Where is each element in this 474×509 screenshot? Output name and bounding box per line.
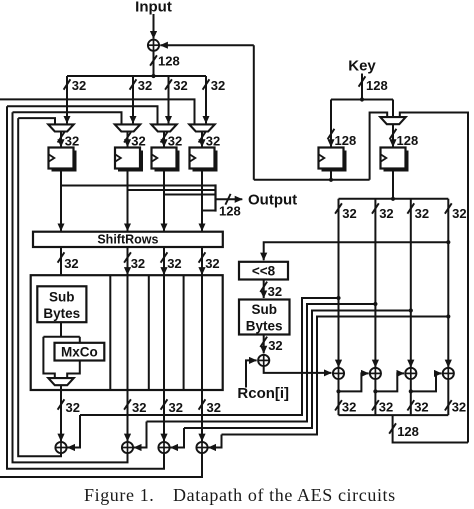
slash 32 below M1 [58,132,65,142]
wire RK1 value recirculate into mux M6 left input [370,113,388,180]
slash 128 above RK1 [328,129,335,139]
wire round key word w0 nest run to X1 jog [80,298,339,415]
svg-text:128: 128 [397,424,419,439]
wire M4 output to register R4 [201,132,203,147]
svg-text:32: 32 [131,133,145,148]
block RotWord shifter <<8 [239,262,288,280]
wire R3 output down to ShiftRows [163,169,165,231]
slash 32 on key column w0 [335,203,342,213]
slash 32 below ShiftRows col 2 [124,252,131,262]
wire Input to XOR [153,14,155,39]
wire X3 output wrap-around feedback [7,106,164,469]
wire new-key bus [339,414,449,416]
slash 32 on drop 4 [203,79,210,89]
wire next-round-key feedback up right edge into mux M6 right input [400,113,468,443]
wire X1 output wrap-around feedback [18,118,61,456]
wire Rcon[i] into XR [246,360,257,387]
wire MxCo output to mux M5 right input [67,361,80,379]
svg-text:32: 32 [64,256,78,271]
svg-text:128: 128 [335,133,357,148]
slash 128 on output wire [225,194,230,205]
node RK2 output junction on key bus [391,197,395,201]
node tap key word w0 [336,296,340,300]
wire XK3 output to new-key bus [410,391,412,415]
node XK3 output junction [409,389,413,393]
slash 32 below ShiftRows col 1 [58,252,65,262]
svg-text:32: 32 [173,78,187,93]
svg-text:Key: Key [348,58,376,75]
slash 32 above new-key bus word 2 [407,400,414,410]
svg-text:32: 32 [379,206,393,221]
wire RK2 output down to key bus [392,169,394,199]
wire round box divider 2 [148,275,150,390]
wire input bus [67,75,206,77]
block ShiftRows [33,232,223,247]
mux M4 (state column 4) [189,124,214,131]
xor gate X3 (AddRoundKey word 3) [158,442,169,453]
slash 32 above new-key bus word 3 [445,400,452,410]
wire XK2 output chained into XK3 [375,373,404,391]
svg-text:MxCo: MxCo [61,345,98,360]
wire round-key into X0 [160,44,254,46]
wire bus drop into mux M3 [168,76,170,123]
wire pass-through column 2 to xor X2 [127,275,129,441]
svg-text:32: 32 [379,400,393,415]
wire feedback 1 top run to mux M1 left input [18,118,55,124]
wire round box divider 3 [183,275,185,390]
svg-text:32: 32 [65,133,79,148]
xor gate XR (Rcon add) [258,355,269,366]
wire XK4 output to new-key bus [447,379,449,415]
node XK2 output junction [373,389,377,393]
wire key split [331,99,393,101]
wire RotWord output into key SubBytes [263,280,265,299]
svg-text:32: 32 [342,400,356,415]
svg-text:Input: Input [135,0,172,15]
wire round key word w1 nest run to X2 jog [147,304,376,422]
svg-text:32: 32 [66,400,80,415]
svg-text:32: 32 [452,400,466,415]
wire R2 output tap to output merge [128,189,216,191]
svg-text:32: 32 [167,256,181,271]
register R2 (state word 2) [115,148,143,172]
svg-text:32: 32 [132,400,146,415]
svg-text:Bytes: Bytes [246,319,283,334]
wire bus drop into mux M1 [66,76,68,123]
wire bus drop into mux M4 [205,76,207,123]
wire XK3 output chained into XK4 [411,373,442,391]
wire bus drop into mux M2 [132,76,134,123]
wire XK1 output to new-key bus [338,391,340,415]
bus-width slash 128 below X0 [150,55,157,65]
wire key split left branch into register RK1 [330,100,332,147]
wire feedback 4 (from X4) to mux M4 left input [0,99,195,124]
node tap w3 for RotWord [446,240,450,244]
node XK1 output junction [336,389,340,393]
slash 32 below key SubBytes [260,337,267,347]
xor gate XK3 (key expansion word 2) [405,368,416,379]
wire round key word 3 into X3 [170,428,184,448]
svg-text:32: 32 [268,284,282,299]
register R4 (state word 4) [190,148,218,172]
mux M6 (key select) [380,117,405,124]
wire M1 output to register R1 [60,132,62,147]
mux M2 (state column 2) [115,124,140,131]
wire key word w1 column down to xor XK2 [374,199,376,367]
slash 32 on drop 1 [64,79,71,89]
slash 32 below M4 [199,132,206,142]
wire key word w2 column down to xor XK3 [410,199,412,367]
slash 32 on drop 3 [165,79,172,89]
svg-text:Figure 1.: Figure 1. [84,485,154,505]
wire round key word w2 nest run to X3 jog [184,311,411,429]
xor gate X0 (initial AddRoundKey) [148,40,159,51]
wire pass-through column 3 to xor X3 [163,275,165,441]
wire ShiftRows output column 3 into round box [163,247,165,275]
svg-text:32: 32 [206,133,220,148]
wire round key word 4 into X4 [208,435,221,448]
svg-text:32: 32 [131,256,145,271]
mux M3 (state column 3) [151,124,176,131]
wire round key word w3 nest run to X4 jog [222,317,449,435]
wire key SubBytes output into xor XR [263,335,265,354]
wire XK2 output to new-key bus [374,391,376,415]
slash 32 below round box col 3 [161,399,168,409]
svg-text:Bytes: Bytes [43,306,80,321]
slash 32 below M2 [124,132,131,142]
register RK2 (round key) [381,148,409,172]
xor gate XK2 (key expansion word 1) [370,368,381,379]
block MxCo (MixColumns) [55,343,105,361]
svg-text:Output: Output [248,192,297,209]
wire w3 into RotWord shifter [264,242,449,260]
register RK1 (key store) [319,148,347,172]
wire XK3 output down [410,379,412,391]
node input-bus junction [151,74,155,78]
xor gate X2 (AddRoundKey word 2) [122,442,133,453]
mux M1 (state column 1) [48,124,73,131]
svg-text:32: 32 [268,338,282,353]
wire key word w3 column down to xor XK4 [447,199,449,367]
wire round box divider 1 [109,275,111,390]
wire ShiftRows output column 1 into round box [60,247,62,286]
wire RK1 output run [254,179,370,181]
wire X2 output wrap-around feedback [13,112,128,462]
svg-text:32: 32 [452,206,466,221]
wire M5 output down to xor X1 [60,385,62,441]
wire M2 output to register R2 [127,132,129,147]
wire MxCo bypass to mux M5 left input [43,337,54,378]
wire split to MxCo and bypass [43,336,79,338]
wire ShiftRows output column 2 into round box [127,247,129,275]
svg-text:32: 32 [169,400,183,415]
wire R4 output tap to output merge [202,210,216,212]
wire new key 128 feedback down and right [393,415,468,442]
svg-text:Datapath of the AES circuits: Datapath of the AES circuits [173,485,396,505]
wire Key down to split [361,74,363,100]
slash 128 on Key wire [359,76,366,86]
node key split junction [360,97,364,101]
svg-text:32: 32 [342,206,356,221]
wire M6 output into register RK2 [392,124,394,147]
wire key word w0 column down to xor XK1 [338,199,340,367]
slash 128 above RK2 [390,129,397,139]
wire XK1 output down [338,379,340,391]
slash 32 below round box col 4 [199,399,206,409]
wire output merge bar [214,184,216,211]
slash 32 above new-key bus word 0 [335,400,342,410]
svg-text:Rcon[i]: Rcon[i] [237,385,289,402]
svg-text:32: 32 [414,400,428,415]
svg-text:<<8: <<8 [252,263,276,278]
wire key split right branch into mux M6 [392,100,394,118]
slash 32 below ShiftRows col 4 [199,252,206,262]
wire round key word 2 into X2 [134,422,147,448]
wire RK1 output up left to X0 [253,45,255,180]
register R1 (state word 1) [49,148,77,172]
svg-text:32: 32 [72,78,86,93]
svg-text:ShiftRows: ShiftRows [97,233,158,247]
node tap key word w3 [446,314,450,318]
wire key bus [339,198,449,200]
wire R2 output down to ShiftRows [127,169,129,231]
xor gate X1 (AddRoundKey word 1) [55,442,66,453]
register R3 (state word 3) [152,148,180,172]
wire ShiftRows output column 4 into round box [201,247,203,275]
xor gate X4 (AddRoundKey word 4) [196,442,207,453]
wire pass-through column 4 to xor X4 [201,275,203,441]
wire round key word 1 into X1 [67,415,80,448]
wire X0 output down to input bus [153,51,155,76]
wire SubBytes output [60,322,62,337]
wire R1 output down to ShiftRows [60,169,62,231]
svg-text:128: 128 [219,203,241,218]
block state round-function box [31,275,223,390]
wire feedback 3 top run to mux M3 left input [7,106,158,124]
slash 32 below RotWord [260,282,267,292]
svg-text:Sub: Sub [251,302,277,317]
svg-text:128: 128 [366,78,388,93]
slash 128 on new-key feedback [389,423,396,433]
xor gate XK1 (key expansion word 0) [333,368,344,379]
wire into MxCo [79,337,81,343]
node tap key word w2 [409,308,413,312]
wire XR output into xor XK1 [264,366,332,373]
slash 32 on key column w3 [445,203,452,213]
wire X4 output wrap-around feedback (runs off left edge) [0,453,202,477]
node tap key word w1 [373,302,377,306]
slash 32 above new-key bus word 1 [372,400,379,410]
block SubBytes (key) [239,300,290,335]
wire R1 output tap to output merge [61,185,216,187]
svg-text:32: 32 [138,78,152,93]
slash 32 below round box col 1 [58,399,65,409]
slash 32 on drop 2 [130,79,137,89]
svg-text:Sub: Sub [49,289,75,304]
node RK1 output junction [329,178,333,182]
wire merged output arrow [216,198,243,200]
svg-text:32: 32 [415,206,429,221]
svg-text:32: 32 [207,400,221,415]
slash 32 below M3 [161,132,168,142]
slash 32 on key column w2 [407,203,414,213]
wire R3 output tap to output merge [164,194,216,196]
svg-text:32: 32 [205,256,219,271]
wire R4 output down to ShiftRows [201,169,203,231]
xor gate XK4 (key expansion word 3) [443,368,454,379]
wire RK1 output down [330,169,332,180]
svg-text:128: 128 [397,133,419,148]
wire XK2 output down [374,379,376,391]
wire XK1 output chained into XK2 [339,373,369,391]
svg-text:128: 128 [158,54,180,69]
slash 32 below round box col 2 [124,399,131,409]
wire feedback 2 top run to mux M2 left input [13,112,122,124]
svg-text:32: 32 [211,78,225,93]
mux M5 (MixColumns bypass select) [48,378,73,385]
svg-text:32: 32 [168,133,182,148]
slash 32 below ShiftRows col 3 [161,252,168,262]
slash 32 on key column w1 [372,203,379,213]
block SubBytes (state) [37,286,86,322]
wire M3 output to register R3 [163,132,165,147]
